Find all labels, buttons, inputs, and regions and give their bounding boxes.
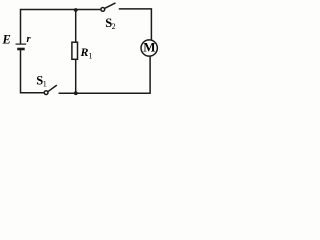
svg-text:1: 1 (89, 52, 93, 61)
svg-text:M: M (143, 39, 155, 54)
svg-text:1: 1 (43, 79, 47, 88)
svg-text:R: R (80, 45, 89, 59)
svg-text:E: E (2, 33, 11, 47)
svg-text:2: 2 (112, 22, 116, 31)
